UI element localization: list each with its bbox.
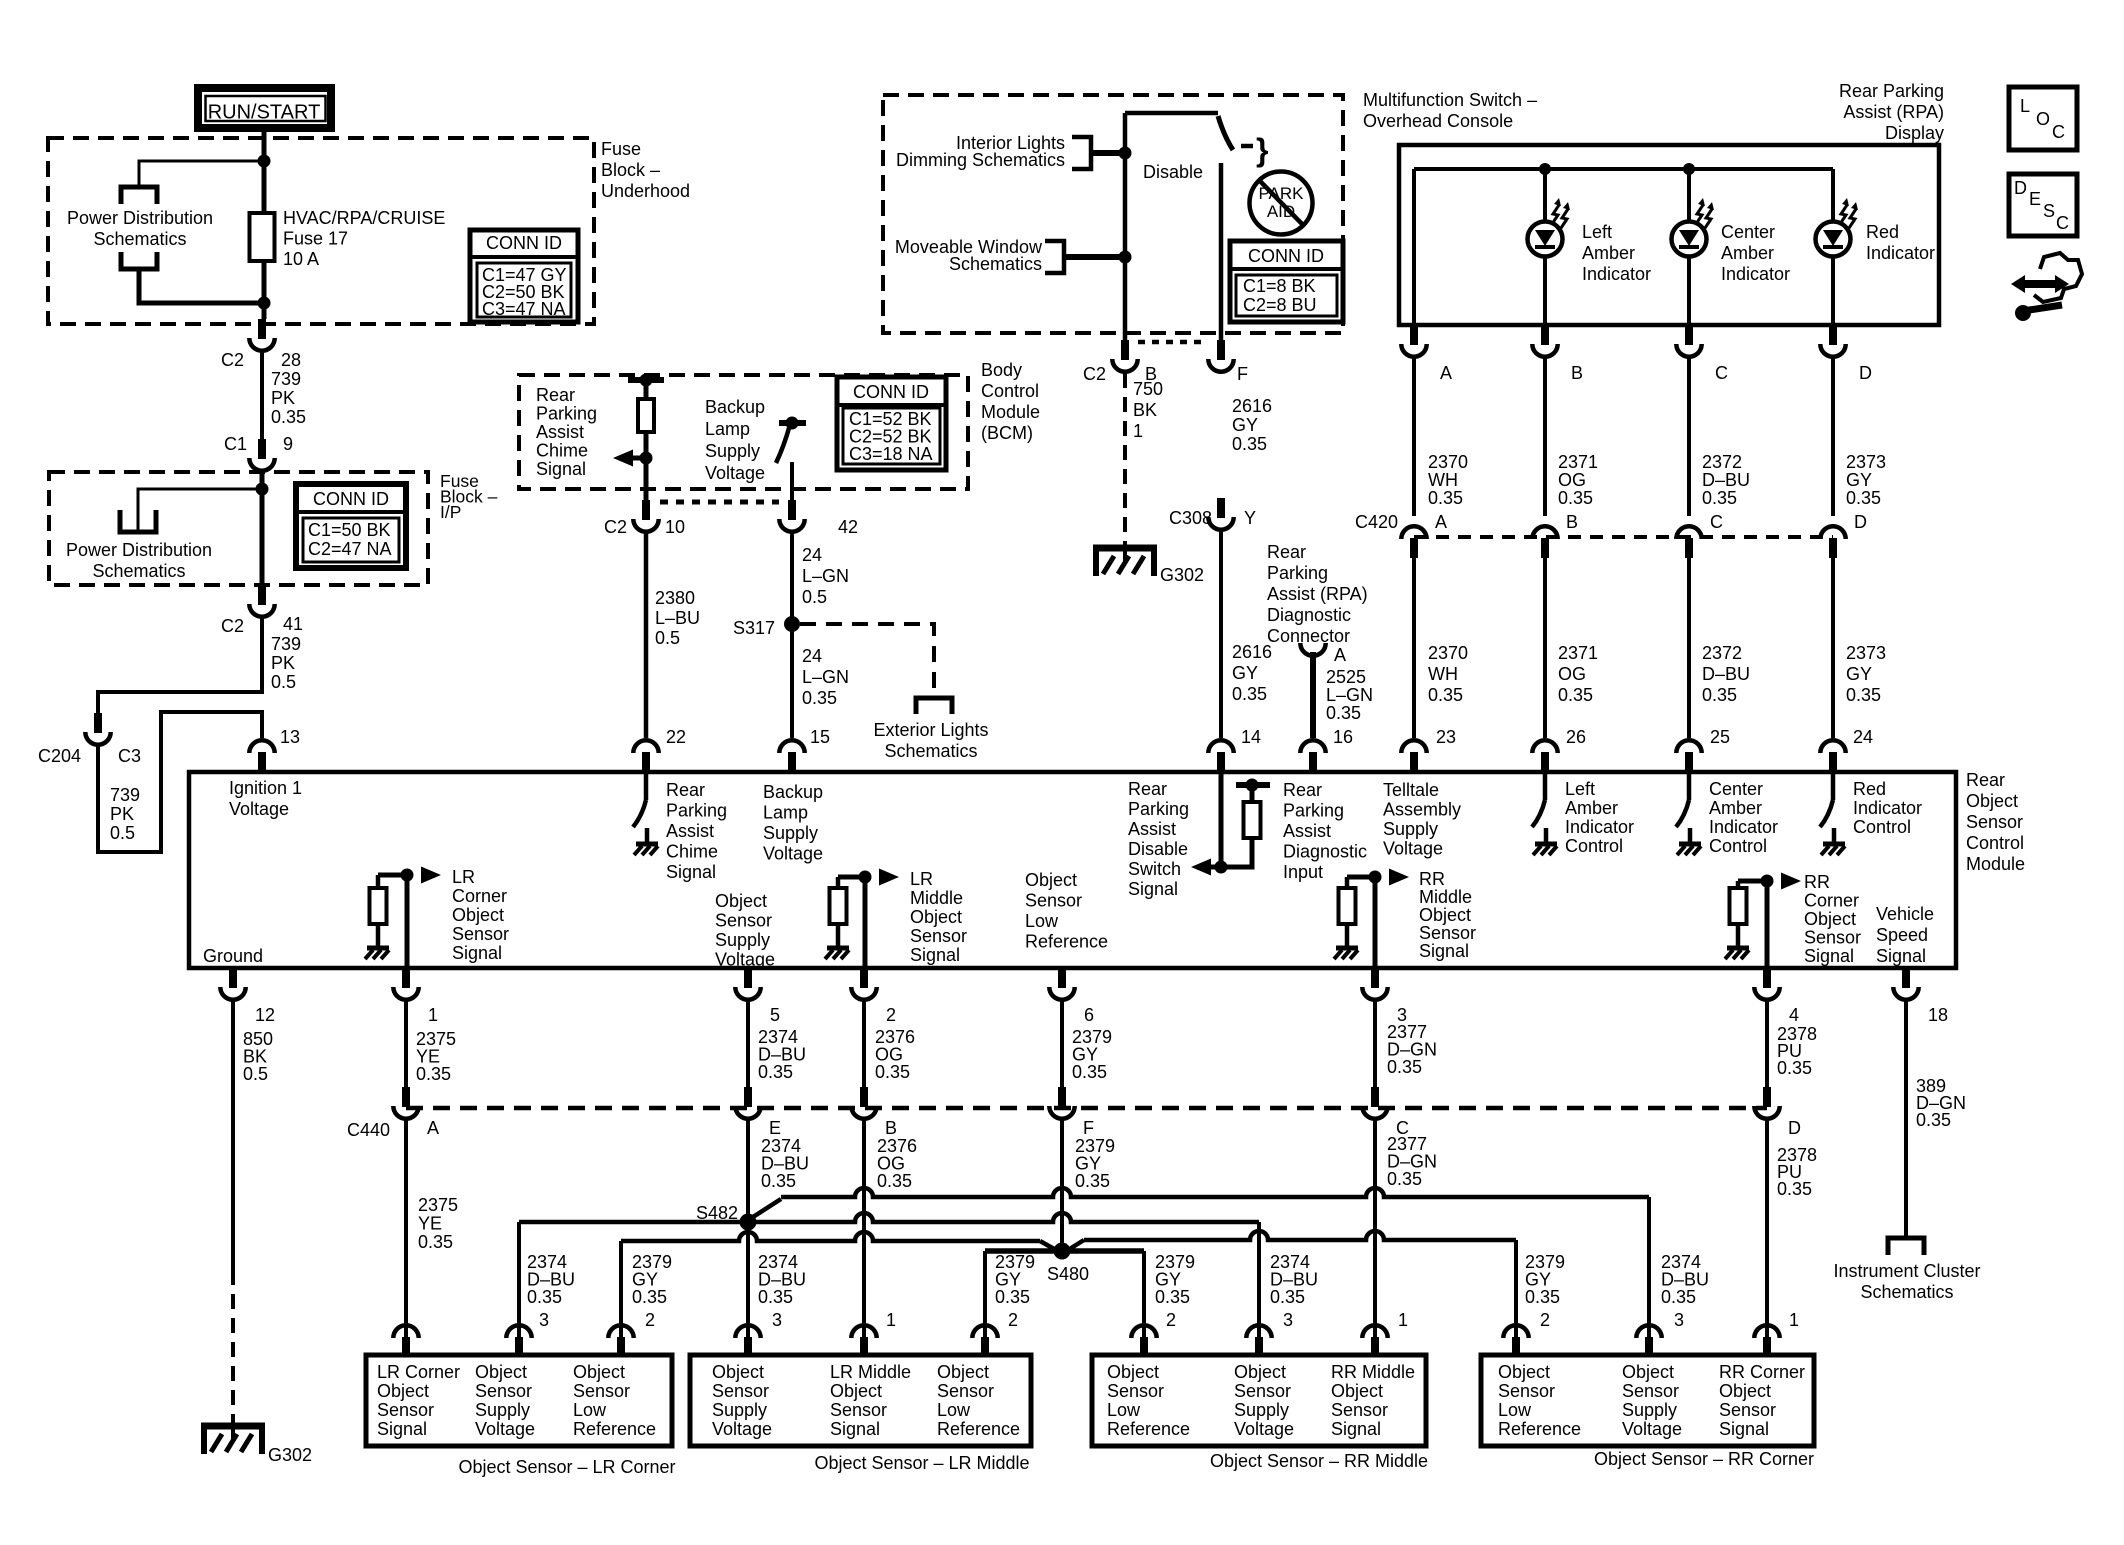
label pin 26: [1566, 727, 1586, 747]
svg-text:O: O: [2036, 109, 2050, 129]
wire moveable window to disable: [1064, 251, 1132, 264]
svg-text:CONN ID: CONN ID: [853, 382, 929, 402]
wire 2380 L-BU: [644, 533, 649, 738]
svg-text:13: 13: [280, 727, 300, 747]
svg-text:Assist: Assist: [1283, 821, 1331, 841]
svg-text:22: 22: [666, 727, 686, 747]
svg-text:Body: Body: [981, 360, 1022, 380]
svg-text:LR Middle: LR Middle: [830, 1362, 911, 1382]
label pin 15: [810, 727, 830, 747]
svg-text:2373: 2373: [1846, 643, 1886, 663]
svg-text:0.35: 0.35: [802, 688, 837, 708]
connector C440 cavity C: [1362, 1087, 1387, 1119]
svg-text:2372: 2372: [1702, 643, 1742, 663]
label 1 (LRM): [886, 1310, 896, 1330]
DESC box: [2009, 174, 2077, 236]
connector module pin 16: [1300, 740, 1325, 772]
svg-text:Signal: Signal: [1876, 946, 1926, 966]
wire C308 to pin 14: [1219, 531, 1223, 738]
red switch internal: [1820, 772, 1845, 855]
node junction I/P: [256, 483, 269, 496]
label pin 25: [1710, 727, 1730, 747]
wire display B lower: [1543, 256, 1547, 325]
svg-text:B: B: [885, 1118, 897, 1138]
label RR corner object sensor signal: [1804, 872, 1861, 966]
svg-text:Block –: Block –: [601, 160, 660, 180]
label center amber indicator control: [1709, 779, 1778, 856]
svg-text:Assist (RPA): Assist (RPA): [1843, 102, 1944, 122]
connector RR middle sensor pin at 1144: [1131, 1325, 1156, 1357]
svg-text:L–GN: L–GN: [802, 667, 849, 687]
wire LR corner pin2 riser: [619, 1241, 623, 1337]
svg-text:0.35: 0.35: [1846, 685, 1881, 705]
wire 2374 mid rail left: [519, 1220, 748, 1225]
svg-text:C1: C1: [224, 434, 247, 454]
svg-text:Exterior Lights: Exterior Lights: [873, 720, 988, 740]
svg-text:24: 24: [802, 545, 822, 565]
label B (C440): [885, 1118, 897, 1138]
label pin 14: [1241, 727, 1261, 747]
diag input arrow: [1191, 859, 1228, 876]
svg-text:C2=8 BU: C2=8 BU: [1243, 295, 1317, 315]
fuse block underhood dashed box: [48, 138, 594, 324]
conn id table overhead console: [1230, 241, 1343, 322]
svg-text:LR: LR: [910, 869, 933, 889]
svg-text:Reference: Reference: [1025, 932, 1108, 952]
svg-text:D: D: [2014, 178, 2027, 198]
wire disable vertical: [1123, 113, 1128, 340]
label instrument cluster schematics: [1833, 1261, 1980, 1302]
svg-text:Disable: Disable: [1143, 162, 1203, 182]
svg-text:Reference: Reference: [1107, 1419, 1190, 1439]
svg-text:GY: GY: [1232, 663, 1258, 683]
label multifunction switch overhead console: [1363, 90, 1537, 131]
svg-text:Voltage: Voltage: [763, 844, 823, 864]
svg-text:Power Distribution: Power Distribution: [67, 208, 213, 228]
svg-text:Signal: Signal: [452, 943, 502, 963]
service icon wrench: [2015, 305, 2062, 321]
chime resistor T-bar: [628, 374, 664, 387]
svg-text:Amber: Amber: [1565, 798, 1618, 818]
svg-text:Assist: Assist: [536, 422, 584, 442]
svg-text:0.35: 0.35: [1777, 1179, 1812, 1199]
label 10: [665, 517, 685, 537]
label power distribution schematics I/P: [66, 540, 212, 581]
svg-text:1: 1: [1789, 1310, 1799, 1330]
connector C440 dashed line: [406, 1106, 1767, 1111]
wire RUN/START to fuse: [262, 128, 267, 213]
connector LR middle sensor pin at 864: [851, 1325, 876, 1357]
rear object sensor control module box: [189, 772, 1956, 968]
svg-text:24: 24: [802, 646, 822, 666]
wire C C420 to pin 25: [1687, 558, 1691, 738]
svg-text:B: B: [1566, 512, 1578, 532]
label rear parking assist display: [1839, 81, 1944, 143]
wire pin 14 internal: [1219, 772, 1224, 867]
svg-text:750: 750: [1133, 379, 1163, 399]
svg-text:Sensor: Sensor: [1107, 1381, 1164, 1401]
svg-text:S480: S480: [1047, 1264, 1089, 1284]
label S480: [1047, 1264, 1089, 1284]
wire F to S480: [1060, 1120, 1064, 1247]
label wire 2616 GY 0.35 lower: [1232, 642, 1272, 704]
label C420: [1355, 512, 1398, 532]
wire 2374 upper rail: [781, 1188, 1649, 1197]
svg-text:C440: C440: [347, 1120, 390, 1140]
connector display pin B: [1532, 325, 1557, 357]
label backup lamp supply voltage (BCM): [705, 397, 765, 483]
off-page ref power distribution (underhood) top bracket: [121, 187, 157, 204]
label left amber indicator control: [1565, 779, 1634, 856]
label wire 739 PK 0.5 (2): [110, 785, 140, 843]
LED left amber indicator: [1528, 198, 1571, 257]
wire C down to RR middle pin 1: [1373, 1120, 1377, 1337]
svg-text:Backup: Backup: [763, 782, 823, 802]
svg-text:Object: Object: [1331, 1381, 1383, 1401]
connector display pin A: [1401, 325, 1426, 357]
svg-text:S: S: [2043, 201, 2055, 221]
wire pin1 to C440 A: [404, 1001, 408, 1087]
svg-text:Signal: Signal: [910, 945, 960, 965]
connector pin F: [1208, 340, 1233, 372]
label fuse block I/P: [440, 471, 498, 522]
svg-text:Signal: Signal: [666, 862, 716, 882]
svg-text:Parking: Parking: [666, 801, 727, 821]
label wire 2377 D-GN 0.35 upper: [1387, 1022, 1437, 1077]
svg-text:Voltage: Voltage: [1622, 1419, 1682, 1439]
diag input resistor: [1244, 785, 1261, 838]
label B: [1145, 364, 1157, 384]
wire rail to RR corner pin 2: [1514, 1240, 1518, 1337]
svg-text:Supply: Supply: [475, 1400, 530, 1420]
off-page ref power distribution (underhood) bottom bracket: [121, 252, 157, 269]
label pin 13: [280, 727, 300, 747]
svg-text:Input: Input: [1283, 862, 1323, 882]
svg-text:0.35: 0.35: [632, 1287, 667, 1307]
wire 850 BK solid: [231, 1001, 235, 1270]
power feed node RUN/START: [198, 88, 331, 128]
connector tie line B-F: [1138, 340, 1208, 345]
label wire 2370 WH 0.35 upper: [1428, 452, 1468, 508]
svg-text:1: 1: [1133, 421, 1143, 441]
svg-text:Rear: Rear: [666, 780, 705, 800]
svg-text:Rear: Rear: [1283, 780, 1322, 800]
label D (display): [1859, 363, 1872, 383]
wire pin4 to C440 D: [1765, 1001, 1769, 1087]
label 9: [283, 434, 293, 454]
LR middle sensor signal internal: [825, 869, 899, 969]
svg-text:A: A: [427, 1118, 439, 1138]
wire 2374 mid rail right: [748, 1213, 1259, 1222]
svg-text:Object: Object: [712, 1362, 764, 1382]
label 3 (LRM): [772, 1310, 782, 1330]
label wire 2616 GY 0.35 upper: [1232, 396, 1272, 454]
svg-text:Signal: Signal: [1804, 946, 1854, 966]
label 3 (RRM): [1283, 1310, 1293, 1330]
svg-text:Object: Object: [715, 891, 767, 911]
label wire 2374 D-BU 0.35 upper: [758, 1027, 806, 1082]
label pin 18: [1928, 1005, 1948, 1025]
svg-text:A: A: [1334, 645, 1346, 665]
connector RR corner sensor pin at 1649: [1636, 1325, 1661, 1357]
label F (C440): [1083, 1118, 1094, 1138]
node junction top: [258, 155, 271, 168]
wire dashed to exterior lights: [800, 624, 934, 698]
connector LR middle sensor pin at 985: [972, 1325, 997, 1357]
label 2 (RRM): [1166, 1310, 1176, 1330]
svg-text:CONN ID: CONN ID: [313, 489, 389, 509]
connector module pin 5: [735, 968, 760, 1000]
label 2 (LRM): [1008, 1310, 1018, 1330]
connector C2 pin 41: [249, 585, 274, 617]
connector LR corner sensor pin at 519: [506, 1325, 531, 1357]
svg-text:Sensor: Sensor: [712, 1381, 769, 1401]
label wire 2378 PU 0.35 (D): [1777, 1145, 1817, 1199]
wire 2379 rail left: [621, 1232, 1040, 1241]
label C1: [224, 434, 247, 454]
wire chime resistor to junction: [644, 432, 649, 500]
svg-text:Signal: Signal: [1719, 1419, 1769, 1439]
wire 2379 rail right: [1084, 1231, 1516, 1240]
svg-text:Middle: Middle: [910, 888, 963, 908]
svg-text:Rear: Rear: [1267, 542, 1306, 562]
svg-text:RUN/START: RUN/START: [208, 102, 321, 124]
svg-text:4: 4: [1789, 1005, 1799, 1025]
connector display pin C: [1676, 325, 1701, 357]
svg-text:GY: GY: [1846, 664, 1872, 684]
svg-text:1: 1: [886, 1310, 896, 1330]
connector C420 cavity C: [1676, 526, 1701, 558]
svg-text:C3=18 NA: C3=18 NA: [849, 444, 933, 464]
svg-text:YE: YE: [418, 1214, 442, 1234]
svg-text:Ground: Ground: [203, 946, 263, 966]
connector BCM pin 42: [779, 500, 804, 532]
svg-text:24: 24: [1853, 727, 1873, 747]
label pin 2: [886, 1005, 896, 1025]
svg-text:2371: 2371: [1558, 643, 1598, 663]
fuse 17 HVAC/RPA/CRUISE: [250, 213, 275, 261]
object sensor RR middle box: [1092, 1355, 1426, 1446]
svg-text:Voltage: Voltage: [712, 1419, 772, 1439]
wire B display to C420: [1543, 358, 1547, 516]
label C308: [1169, 508, 1212, 528]
svg-text:Parking: Parking: [1128, 799, 1189, 819]
label 1 (RRM): [1398, 1310, 1408, 1330]
svg-text:Schematics: Schematics: [1860, 1282, 1953, 1302]
connector C308 Y: [1208, 498, 1233, 530]
wire 2379 dip to S480: [1040, 1241, 1056, 1250]
label C3: [118, 746, 141, 766]
label C2 (41): [221, 616, 244, 636]
connector module pin 25: [1676, 740, 1701, 772]
label wire 2376 OG 0.35 upper: [875, 1027, 915, 1082]
park aid circle: [1250, 172, 1313, 235]
svg-text:Reference: Reference: [937, 1419, 1020, 1439]
label rear parking assist chime signal (module): [666, 780, 727, 882]
label fuse block underhood: [601, 139, 690, 201]
chime resistor: [638, 380, 654, 432]
svg-text:0.35: 0.35: [271, 407, 306, 427]
svg-text:Center: Center: [1709, 779, 1763, 799]
center amber switch internal: [1676, 772, 1701, 855]
svg-text:2616: 2616: [1232, 396, 1272, 416]
connector module pin 4: [1754, 968, 1779, 1000]
label wire 2372 D-BU 0.35 upper: [1702, 452, 1750, 508]
svg-text:Diagnostic: Diagnostic: [1267, 605, 1351, 625]
svg-text:Low: Low: [937, 1400, 971, 1420]
svg-text:3: 3: [1283, 1310, 1293, 1330]
svg-text:C: C: [1715, 363, 1728, 383]
svg-text:Indicator: Indicator: [1853, 798, 1922, 818]
wire pin2 to C440 B: [862, 1001, 866, 1087]
label vehicle speed signal: [1876, 904, 1934, 966]
svg-text:0.35: 0.35: [418, 1232, 453, 1252]
svg-text:Sensor: Sensor: [910, 926, 967, 946]
label Y: [1244, 508, 1256, 528]
svg-text:9: 9: [283, 434, 293, 454]
svg-text:5: 5: [770, 1005, 780, 1025]
label wire 2371 OG 0.35 upper: [1558, 452, 1598, 508]
svg-text:L–GN: L–GN: [802, 566, 849, 586]
label A (diag): [1334, 645, 1346, 665]
svg-text:LR: LR: [452, 867, 475, 887]
wire A display to C420: [1412, 358, 1416, 516]
svg-text:Object: Object: [1966, 791, 2018, 811]
label wire 2374 D-BU 0.35 (LRC3): [527, 1252, 575, 1307]
label C2 (10): [604, 517, 627, 537]
svg-text:0.5: 0.5: [271, 672, 296, 692]
svg-text:2375: 2375: [418, 1195, 458, 1215]
svg-text:0.35: 0.35: [1558, 685, 1593, 705]
svg-text:PK: PK: [271, 388, 295, 408]
svg-text:D–BU: D–BU: [1702, 470, 1750, 490]
chime signal arrow: [613, 450, 653, 467]
label wire 2377 D-GN 0.35 (C): [1387, 1134, 1437, 1189]
wire pin3 to C440 C: [1373, 1001, 1377, 1087]
object sensor LR middle box: [690, 1355, 1031, 1446]
label wire 2374 D-BU 0.35 (E): [761, 1136, 809, 1191]
wire branch to power distribution I/P: [138, 489, 262, 532]
RR middle sensor signal internal: [1334, 869, 1409, 969]
svg-text:Low: Low: [1025, 911, 1059, 931]
svg-text:0.35: 0.35: [527, 1287, 562, 1307]
svg-text:3: 3: [772, 1310, 782, 1330]
svg-text:0.35: 0.35: [1846, 488, 1881, 508]
svg-text:25: 25: [1710, 727, 1730, 747]
svg-text:C3=47 NA: C3=47 NA: [482, 299, 566, 319]
svg-text:0.35: 0.35: [1558, 488, 1593, 508]
label S317: [733, 618, 775, 638]
svg-text:Corner: Corner: [1804, 891, 1859, 911]
label wire 2374 D-BU 0.35 (RRM3): [1270, 1252, 1318, 1307]
label pin 5: [770, 1005, 780, 1025]
svg-text:Sensor: Sensor: [1804, 928, 1861, 948]
svg-text:Underhood: Underhood: [601, 181, 690, 201]
connector C440 cavity A: [393, 1087, 418, 1119]
label LR corner object sensor signal: [452, 867, 509, 963]
label 1 (RRC): [1789, 1310, 1799, 1330]
label S482: [696, 1203, 738, 1223]
svg-text:Object: Object: [1804, 909, 1856, 929]
svg-text:PARK: PARK: [1258, 184, 1304, 203]
svg-text:Sensor: Sensor: [1419, 923, 1476, 943]
label wire 2379 GY 0.35 (RRM2): [1155, 1252, 1195, 1307]
wire interior lights to disable: [1091, 147, 1132, 160]
svg-text:0.35: 0.35: [758, 1062, 793, 1082]
conn id table I/P: [296, 484, 406, 568]
label 3 (LRC): [539, 1310, 549, 1330]
label object sensor supply voltage (module left): [715, 891, 775, 970]
svg-text:Signal: Signal: [1128, 879, 1178, 899]
svg-text:Sensor: Sensor: [475, 1381, 532, 1401]
display bus wire: [1414, 167, 1833, 171]
wire switch to pin 42: [790, 462, 794, 500]
svg-text:0.35: 0.35: [1916, 1110, 1951, 1130]
svg-text:D: D: [1854, 512, 1867, 532]
ground G302: [201, 1423, 265, 1454]
wire S480 branch right: [1062, 1248, 1144, 1254]
svg-text:0.35: 0.35: [1072, 1062, 1107, 1082]
label rear parking assist chime signal (BCM): [536, 385, 597, 479]
svg-text:42: 42: [838, 517, 858, 537]
wire through I/P box: [260, 470, 265, 585]
svg-text:Parking: Parking: [1283, 801, 1344, 821]
off-page ref power distribution I/P bracket: [120, 510, 156, 532]
connector LR corner sensor pin at 621: [608, 1325, 633, 1357]
wire display B upper: [1543, 169, 1547, 222]
svg-text:Low: Low: [573, 1400, 607, 1420]
svg-text:Sensor: Sensor: [1498, 1381, 1555, 1401]
svg-text:Supply: Supply: [712, 1400, 767, 1420]
connector module pin 3: [1362, 968, 1387, 1000]
svg-text:0.35: 0.35: [1270, 1287, 1305, 1307]
svg-text:Overhead Console: Overhead Console: [1363, 111, 1513, 131]
svg-text:E: E: [2029, 189, 2041, 209]
svg-text:Supply: Supply: [715, 930, 770, 950]
svg-text:3: 3: [1674, 1310, 1684, 1330]
svg-text:1: 1: [1398, 1310, 1408, 1330]
svg-text:Instrument Cluster: Instrument Cluster: [1833, 1261, 1980, 1281]
svg-text:0.35: 0.35: [1326, 703, 1361, 723]
svg-text:Reference: Reference: [1498, 1419, 1581, 1439]
label wire 2373 GY 0.35 upper: [1846, 452, 1886, 508]
label C2: [221, 350, 244, 370]
svg-text:Multifunction Switch –: Multifunction Switch –: [1363, 90, 1537, 110]
label 41: [283, 614, 303, 634]
label rear object sensor control module: [1966, 770, 2025, 874]
connector module pin 24: [1820, 740, 1845, 772]
svg-text:Module: Module: [1966, 854, 2025, 874]
svg-text:2: 2: [1540, 1310, 1550, 1330]
svg-text:12: 12: [255, 1005, 275, 1025]
svg-text:F: F: [1237, 364, 1248, 384]
svg-text:Sensor: Sensor: [1719, 1400, 1776, 1420]
svg-text:Control: Control: [1565, 836, 1623, 856]
connector module pin 6: [1049, 968, 1074, 1000]
svg-text:Assembly: Assembly: [1383, 800, 1461, 820]
wire C204 to pin 13: [98, 712, 262, 852]
label wire 2372 D-BU 0.35 lower: [1702, 643, 1750, 705]
label wire 2376 OG 0.35 (B): [877, 1136, 917, 1191]
svg-text:Diagnostic: Diagnostic: [1283, 842, 1367, 862]
chime switch internal: [633, 772, 658, 855]
svg-text:Amber: Amber: [1582, 243, 1635, 263]
svg-text:C: C: [2056, 213, 2069, 233]
connector module pin 2: [851, 968, 876, 1000]
svg-text:Sensor: Sensor: [830, 1400, 887, 1420]
svg-text:Object: Object: [573, 1362, 625, 1382]
svg-text:Chime: Chime: [536, 441, 588, 461]
